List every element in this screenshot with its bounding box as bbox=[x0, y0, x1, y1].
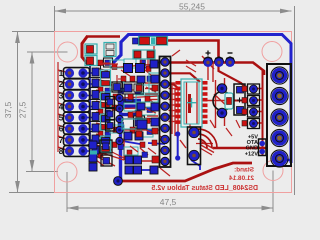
wire red thick ring top-left bbox=[82, 36, 88, 64]
wire red vertical left of connector bbox=[262, 71, 264, 156]
wire blue double bar bbox=[122, 99, 141, 103]
wire red JP2 left links bbox=[110, 64, 160, 130]
header JP3 4x1 bbox=[242, 84, 260, 129]
labels +5V OTA GND +12V bbox=[245, 134, 259, 157]
pin header JP5 column x119 bbox=[116, 94, 123, 144]
wire red GND horizontal bbox=[213, 147, 268, 149]
mounting hole bottom-right bbox=[263, 161, 283, 181]
wire red verticals between JP2 and IC bbox=[172, 86, 178, 138]
wire red bottom-left diagonals bbox=[96, 136, 186, 166]
svg-text:37,5: 37,5 bbox=[3, 101, 13, 118]
wire blue misc links bbox=[122, 62, 200, 170]
mounting hole top-left bbox=[58, 42, 78, 62]
blue pad near JP2 top bbox=[150, 60, 158, 68]
diode D2 bbox=[85, 56, 97, 66]
wire red crossing via pads bbox=[202, 56, 214, 82]
svg-text:55,245: 55,245 bbox=[179, 2, 205, 12]
svg-text:47,5: 47,5 bbox=[160, 197, 177, 207]
wire red bottom long trace bbox=[118, 163, 252, 181]
board outline bbox=[55, 32, 292, 193]
mounting hole top-right bbox=[262, 42, 282, 62]
transistor T1 TO-92 bbox=[213, 84, 233, 118]
bottom-left cluster bbox=[89, 140, 159, 185]
dimension 37,5 left bbox=[9, 32, 60, 193]
wire red JP3 stubs bbox=[257, 89, 263, 124]
strip texture pads bbox=[98, 59, 157, 158]
diode D1 bbox=[85, 44, 97, 54]
wire red row through via pads bbox=[166, 63, 264, 76]
wire blue header stubs bbox=[83, 73, 94, 151]
column x136-160 cluster bbox=[136, 73, 160, 137]
wire blue stub with vias bbox=[175, 131, 180, 160]
header JP1 pads bbox=[65, 68, 88, 155]
wire red verticals near T1 bbox=[203, 78, 230, 128]
dimension 27,5 left bbox=[26, 52, 68, 172]
wire red fan left of IC bbox=[145, 83, 176, 122]
wire red top segment bbox=[86, 35, 120, 38]
dimension 47,5 bottom bbox=[67, 171, 273, 213]
regulator U2 bbox=[234, 84, 245, 115]
resistor cluster mid (x123-145) bbox=[122, 84, 146, 140]
wire red U2 crossing bbox=[232, 100, 247, 102]
capacitor C1 bbox=[133, 37, 168, 46]
strip black outlines bbox=[90, 58, 145, 144]
pin header JP2 middle column bbox=[160, 57, 171, 168]
svg-text:21.08.14: 21.08.14 bbox=[229, 175, 254, 182]
svg-text:27,5: 27,5 bbox=[18, 101, 28, 118]
svg-text:DS2408_LED Status Tablou v2.5: DS2408_LED Status Tablou v2.5 bbox=[151, 185, 258, 192]
header JP1 row boxes bbox=[64, 68, 90, 157]
mounting hole bottom-left bbox=[57, 162, 77, 182]
terminal block X1 bbox=[267, 64, 291, 167]
wire red bottom-left short bbox=[135, 160, 158, 162]
wire red left edge vertical bbox=[57, 62, 59, 152]
wire blue mid vertical left bbox=[89, 64, 91, 148]
wire red extra thin traces bbox=[96, 46, 240, 176]
resistor R9 top bbox=[104, 43, 116, 57]
dimension 55,245 top bbox=[55, 6, 295, 195]
red text stamp mirrored bbox=[229, 167, 254, 183]
wire red JP2 branches bbox=[166, 73, 200, 90]
wire red header diagonals bbox=[58, 68, 108, 151]
diode D4 bottom middle bbox=[188, 127, 201, 165]
component X2 right small bbox=[259, 139, 267, 156]
via pads row top right bbox=[203, 51, 235, 67]
IC U1 DS2408 SOIC bbox=[176, 79, 208, 127]
header JP1 pin numbers bbox=[59, 69, 64, 156]
wire blue single bar bbox=[122, 113, 138, 116]
wire blue right-bottom into connector bbox=[279, 157, 291, 160]
wire red bundle right of D4 bbox=[196, 141, 214, 155]
wire red vertical to pad column bbox=[219, 63, 245, 87]
blue pads pair below C1 bbox=[124, 64, 145, 73]
wire blue elbow top-left bbox=[114, 35, 129, 68]
wire red verticals through IC bbox=[188, 94, 191, 113]
transistor column black boxes bbox=[106, 82, 123, 131]
svg-text:Stand:: Stand: bbox=[234, 167, 254, 174]
resistor R10 bbox=[133, 50, 155, 59]
wire blue bus top edge bbox=[128, 35, 292, 164]
svg-text:+12V: +12V bbox=[245, 151, 258, 157]
wire red top mid segment bbox=[167, 41, 219, 63]
wire red arcs near T1 bbox=[198, 129, 217, 148]
wire blue thick vertical center-bottom bbox=[119, 104, 122, 181]
component strip column A bbox=[92, 68, 111, 154]
